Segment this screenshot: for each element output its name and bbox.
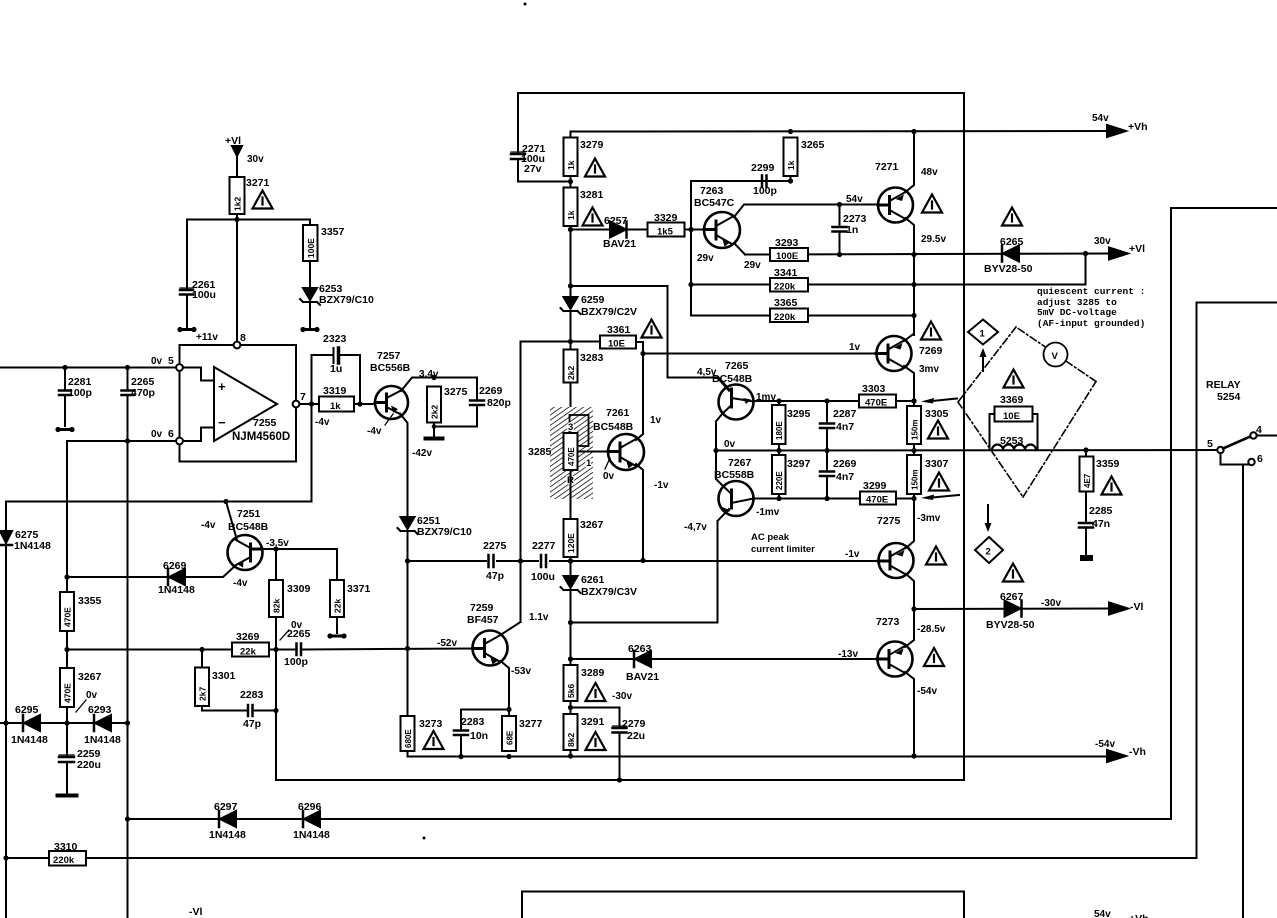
svg-text:3289: 3289: [581, 667, 605, 679]
junction 2283 line: [273, 708, 278, 713]
label AC peak current limiter: [751, 532, 815, 555]
svg-text:3269: 3269: [236, 631, 260, 643]
op-amp U7255 outer box: [180, 345, 297, 462]
svg-text:0v: 0v: [86, 690, 98, 701]
junction -Vl node: [911, 606, 916, 611]
resistor 3341 220k: [770, 278, 808, 292]
ground block under C2285: [1080, 555, 1093, 561]
svg-text:3365: 3365: [774, 297, 798, 309]
resistor 3329 1k5: [648, 223, 685, 237]
svg-text:−: −: [218, 415, 226, 430]
svg-text:BC548B: BC548B: [228, 521, 269, 533]
capacitor C2281 100p: [64, 368, 66, 390]
junction caps line x520: [518, 558, 523, 563]
junction C2269 bottom return: [432, 424, 437, 429]
junction R3277: [506, 754, 511, 759]
wire contact 4 out: [1257, 435, 1277, 437]
svg-text:-54v: -54v: [917, 686, 937, 697]
junction 3310 row: [3, 855, 8, 860]
wire Q7259 emitter: [501, 661, 510, 716]
svg-text:47p: 47p: [486, 570, 504, 582]
capacitor C2271 100u 27v: [511, 154, 525, 159]
wire 7265 base feed y286: [571, 286, 719, 378]
wire 30v feed y284: [691, 284, 1086, 286]
svg-text:4E7: 4E7: [1083, 473, 1092, 488]
svg-text:8k2: 8k2: [566, 733, 576, 747]
wire 3269 to C2266: [269, 649, 295, 651]
arrow -Vh: [1107, 750, 1126, 762]
wire 3310 row y858: [6, 857, 1197, 859]
junction caps line x643: [640, 558, 645, 563]
svg-text:10n: 10n: [470, 730, 488, 742]
svg-text:BC548B: BC548B: [593, 421, 634, 433]
wire 3269 line y649: [67, 649, 232, 651]
diode 6275 1N4148: [0, 531, 12, 543]
resistor 3307 150m: [907, 455, 921, 494]
resistor 3275 2k2: [427, 387, 441, 423]
junction output node: [309, 401, 314, 406]
resistor 3305 150m: [907, 406, 921, 444]
resistor 3303 470E: [859, 395, 896, 408]
wire left edge down: [5, 502, 7, 532]
junction 0v node: [713, 448, 718, 453]
svg-text:4: 4: [1256, 424, 1262, 436]
svg-text:3329: 3329: [654, 212, 678, 224]
resistor 3283 2k2: [564, 350, 578, 383]
wire diode row y723: [0, 722, 128, 724]
svg-text:7271: 7271: [875, 161, 899, 173]
svg-text:3297: 3297: [787, 458, 811, 470]
capacitor C2283 47p: [248, 705, 253, 716]
zener diode 6261 BZX79/C3V: [564, 576, 578, 588]
svg-text:180E: 180E: [775, 421, 784, 440]
svg-text:2285: 2285: [1089, 505, 1113, 517]
svg-text:BC547C: BC547C: [694, 197, 735, 209]
svg-text:1k2: 1k2: [233, 197, 243, 211]
junction C2269 bottom: [824, 496, 829, 501]
svg-text:-13v: -13v: [838, 649, 858, 660]
svg-text:quiescent current :: quiescent current :: [1037, 286, 1145, 297]
svg-text:820p: 820p: [487, 397, 511, 409]
wire C2279 branch: [571, 708, 620, 727]
warning triangle at 3279: [585, 159, 605, 177]
resistor 3355 470E: [60, 592, 74, 631]
big box right edge x964: [963, 93, 965, 780]
wire 3269 node to R3301: [201, 650, 203, 668]
warning triangle at 3359: [1102, 477, 1122, 495]
svg-text:1N4148: 1N4148: [209, 829, 246, 841]
svg-text:3369: 3369: [1000, 394, 1024, 406]
transistor Q7259 BF457: [473, 631, 508, 666]
svg-text:BAV21: BAV21: [626, 671, 659, 683]
junction caps line: [405, 558, 410, 563]
wire Q7251 collector right: [262, 548, 337, 550]
transistor Q7263 BC547C: [704, 212, 740, 248]
capacitor C2269 4n7: [826, 451, 828, 471]
node 0v label with slash: [291, 620, 303, 631]
svg-text:BF457: BF457: [467, 614, 499, 626]
wire x691 column: [690, 181, 692, 285]
relay contact 5 pivot: [1217, 447, 1223, 453]
svg-text:3265: 3265: [801, 139, 825, 151]
capacitor C2261 100u: [180, 290, 193, 295]
wire corner to R3279: [570, 132, 572, 138]
warning triangle at 7269: [921, 322, 941, 340]
capacitor C2259 220u: [59, 757, 74, 762]
svg-text:7261: 7261: [606, 407, 630, 419]
resistor 3371 22k: [330, 580, 344, 617]
wire 7273 base row y659: [571, 658, 878, 660]
speck: [524, 3, 527, 6]
transistor Q7271: [878, 188, 913, 223]
svg-text:6295: 6295: [15, 704, 39, 716]
svg-text:6296: 6296: [298, 801, 322, 813]
svg-text:4n7: 4n7: [836, 471, 854, 483]
resistor 3359 4E7: [1080, 457, 1094, 492]
svg-text:100u: 100u: [531, 571, 555, 583]
wire Q7259 collector: [501, 622, 521, 635]
resistor 3365 220k: [770, 309, 808, 323]
wire R3297 bottom stub: [778, 494, 780, 499]
pot wiper wire to Q7261 base: [578, 451, 609, 453]
svg-text:2283: 2283: [461, 716, 485, 728]
arrow +Vl: [1109, 248, 1128, 260]
resistor 3310 220k: [49, 851, 86, 866]
svg-text:6261: 6261: [581, 574, 605, 586]
wire x643 column: [642, 342, 644, 434]
wire Q7263 emitter to 29v row: [734, 243, 745, 255]
capacitor C2265 470p: [127, 368, 129, 390]
svg-text:7269: 7269: [919, 345, 943, 357]
wire C2299 top y181: [691, 180, 791, 182]
svg-text:3267: 3267: [78, 671, 102, 683]
relay 5254 label: [1206, 379, 1241, 403]
svg-text:68E: 68E: [506, 730, 515, 745]
wire R3307 to emitter row: [913, 494, 915, 499]
warning triangle at 3305: [928, 421, 948, 439]
junction y819: [125, 816, 130, 821]
note quiescent current text: [1037, 286, 1145, 329]
wire 3365 row y315: [691, 285, 914, 316]
capacitor C2287 4n7: [826, 401, 828, 422]
pin 8 terminal: [234, 342, 241, 349]
node 0v label with slash: [86, 690, 98, 701]
resistor 3319 1k: [319, 397, 354, 412]
wire D6261 down: [570, 591, 572, 665]
warning triangle at 7271: [922, 195, 942, 213]
svg-text:7257: 7257: [377, 350, 401, 362]
svg-text:-53v: -53v: [511, 666, 531, 677]
node -4v label: [315, 417, 330, 428]
svg-text:100p: 100p: [68, 387, 92, 399]
svg-text:0v: 0v: [151, 429, 163, 440]
resistor 3281 1k: [564, 188, 578, 227]
svg-text:3319: 3319: [323, 385, 347, 397]
wire pot bottom: [570, 470, 572, 519]
svg-text:BAV21: BAV21: [603, 238, 636, 250]
wire Q7267 emitter row y498: [754, 498, 915, 500]
svg-text:6263: 6263: [628, 643, 652, 655]
wire to R3371: [336, 549, 338, 580]
resistor 3361 10E: [600, 336, 636, 349]
wire x128 column: [127, 441, 129, 918]
ground under R3371: [331, 635, 343, 638]
svg-text:1v: 1v: [849, 342, 861, 353]
wire Q7267 collector to 0v node: [715, 451, 717, 480]
svg-text:470E: 470E: [866, 495, 888, 506]
ground under D6253: [304, 328, 316, 331]
svg-text:100p: 100p: [284, 656, 308, 668]
capacitor C2285 47n: [1079, 523, 1093, 528]
junction x570 caps line: [568, 558, 573, 563]
svg-text:3295: 3295: [787, 408, 811, 420]
svg-text:6: 6: [168, 428, 174, 440]
voltmeter V: [1044, 343, 1068, 367]
svg-text:3283: 3283: [580, 352, 604, 364]
junction R3309 top: [273, 546, 278, 551]
diode 6257 BAV21: [610, 222, 626, 238]
diode 6265 BYV28-50: [1003, 246, 1019, 262]
svg-text:0v: 0v: [603, 471, 615, 482]
wire C2271 to 3279/3281 junction: [518, 159, 571, 182]
wire contact 6 stub: [1221, 453, 1249, 465]
junction diode row: [64, 720, 69, 725]
resistor 3265 1k: [784, 138, 798, 177]
svg-text:3310: 3310: [54, 841, 78, 853]
diamond test point 1: [968, 320, 998, 345]
svg-text:1: 1: [586, 458, 592, 469]
diode 6263 BAV21: [635, 651, 651, 667]
capacitor C2277 100u: [539, 554, 549, 568]
svg-text:-54v: -54v: [1095, 739, 1115, 750]
junction Q7251 base: [223, 499, 228, 504]
wire between 3355 and 3367: [66, 631, 68, 668]
junction Q7271 collector: [911, 129, 916, 134]
junction C2287 bottom: [824, 448, 829, 453]
svg-text:1v: 1v: [650, 415, 662, 426]
wire 29v row y254: [745, 254, 1110, 255]
wire 3281 to bias row: [570, 226, 572, 297]
warning triangle at 3307: [929, 473, 949, 491]
wire Q7257 collector to top rail: [401, 378, 477, 392]
svg-text:BZX79/C2V: BZX79/C2V: [581, 306, 637, 318]
wire Q7273 collector: [905, 609, 914, 647]
wire left column x67: [66, 441, 68, 592]
transistor Q7257 BC556B: [375, 386, 408, 419]
capacitor C2273 1n: [839, 205, 841, 226]
svg-text:3281: 3281: [580, 189, 604, 201]
svg-text:3291: 3291: [581, 716, 605, 728]
svg-text:current limiter: current limiter: [751, 544, 815, 555]
wire Q7261 emitter: [636, 464, 643, 561]
junction: [234, 217, 239, 222]
junction: [199, 647, 204, 652]
svg-text:+: +: [218, 379, 226, 394]
svg-text:4,5v: 4,5v: [697, 367, 717, 378]
relay blade to contact 4: [1223, 437, 1251, 449]
svg-text:3341: 3341: [774, 267, 798, 279]
svg-text:+Vl: +Vl: [1129, 243, 1145, 255]
svg-text:2: 2: [986, 547, 991, 558]
svg-text:6269: 6269: [163, 560, 187, 572]
svg-text:22k: 22k: [333, 599, 343, 613]
transistor Q7267 BC558B: [719, 481, 754, 516]
junction y284: [911, 282, 916, 287]
svg-text:0v: 0v: [724, 439, 736, 450]
wire bias row y229: [571, 229, 705, 231]
wire Q7273 emitter: [905, 672, 914, 756]
capacitor C2266 100p: [297, 644, 302, 656]
node 0v label: [724, 439, 736, 450]
junction x914 y450: [911, 448, 916, 453]
warning triangle at 3291: [586, 732, 606, 750]
svg-text:BC548B: BC548B: [712, 373, 753, 385]
svg-text:(AF-input grounded): (AF-input grounded): [1037, 318, 1145, 329]
svg-text:1N4148: 1N4148: [293, 829, 330, 841]
resistor 3301 2k7: [195, 668, 209, 707]
svg-text:3mv: 3mv: [919, 364, 939, 375]
junction left column: [64, 574, 69, 579]
svg-text:3: 3: [568, 422, 573, 433]
svg-text:47n: 47n: [1092, 518, 1110, 530]
wire D6275 down left rail: [5, 545, 7, 918]
zener diode 6253 BZX79/C10: [303, 288, 317, 300]
svg-text:3303: 3303: [862, 383, 886, 395]
warning triangle at 7273: [924, 648, 944, 666]
wire R3309 leg: [275, 549, 277, 580]
svg-text:0v: 0v: [151, 356, 163, 367]
wire 0v output row y450: [716, 449, 1218, 452]
svg-text:100E: 100E: [306, 238, 316, 258]
svg-text:470E: 470E: [865, 398, 887, 409]
svg-text:1n: 1n: [846, 224, 858, 236]
svg-text:1N4148: 1N4148: [11, 734, 48, 746]
svg-text:3371: 3371: [347, 583, 371, 595]
wire Q7265 collector to 0v node: [715, 422, 717, 451]
svg-text:150m: 150m: [911, 420, 920, 440]
capacitor C2279 22u: [613, 728, 627, 733]
svg-text:220k: 220k: [53, 855, 75, 866]
junction y284: [688, 282, 693, 287]
sense arrow lower: [932, 495, 959, 498]
svg-text:220k: 220k: [774, 312, 796, 323]
svg-text:30v: 30v: [1094, 236, 1111, 247]
svg-text:100p: 100p: [753, 185, 777, 197]
resistor 3273 680E: [401, 716, 415, 751]
junction 2271 feed: [568, 179, 573, 184]
wire Q7251 base diag from feedback node: [226, 502, 237, 541]
arrow +Vh: [1107, 125, 1126, 137]
transistor Q7269: [877, 336, 912, 371]
resistor 3271 1k2: [230, 177, 245, 214]
node -52v label: [437, 638, 457, 649]
junction C2265 bottom: [125, 438, 130, 443]
warning triangle at 3271: [253, 191, 273, 209]
svg-text:6293: 6293: [88, 704, 112, 716]
svg-text:3267: 3267: [580, 519, 604, 531]
potentiometer 3285 hatched adjust area: [550, 407, 593, 499]
wire R3295 top stub: [778, 401, 780, 406]
warning triangle 6257: [583, 208, 603, 226]
svg-text:3309: 3309: [287, 583, 311, 595]
svg-text:NJM4560D: NJM4560D: [232, 431, 290, 443]
capacitor C2283 10n: [454, 731, 468, 736]
svg-text:-28.5v: -28.5v: [917, 624, 946, 635]
ground bar under C2259: [58, 794, 77, 798]
svg-text:BC556B: BC556B: [370, 362, 411, 374]
svg-text:3277: 3277: [519, 718, 543, 730]
svg-text:-4v: -4v: [315, 417, 330, 428]
diode 6297 1N4148: [220, 811, 236, 827]
svg-text:1N4148: 1N4148: [158, 584, 195, 596]
svg-text:1N4148: 1N4148: [84, 734, 121, 746]
svg-text:7251: 7251: [237, 508, 261, 520]
junction R3291: [568, 753, 573, 758]
junction 3269 line left: [64, 647, 69, 652]
svg-text:-Vl: -Vl: [1130, 601, 1144, 613]
wire 7269 base y353: [643, 353, 876, 355]
svg-text:5254: 5254: [1217, 391, 1241, 403]
wire big box top y93: [518, 92, 964, 94]
resistor 3309 82k: [269, 580, 283, 617]
junction C2283b top: [506, 707, 511, 712]
junction C2265: [125, 365, 130, 370]
transistor Q7261 BC548B: [608, 434, 644, 470]
supply +Vl top arrow: [232, 146, 242, 156]
svg-text:220E: 220E: [775, 471, 784, 490]
junction C2273 top: [837, 202, 842, 207]
svg-text:7263: 7263: [700, 185, 724, 197]
junction y286: [568, 283, 573, 288]
wire Q7251 emitter to D6269: [186, 565, 236, 577]
junction 10E row: [568, 339, 573, 344]
svg-text:7259: 7259: [470, 602, 494, 614]
wire -54v rail y756: [408, 751, 1109, 757]
svg-text:-Vh: -Vh: [1129, 746, 1146, 758]
svg-text:1N4148: 1N4148: [14, 540, 51, 552]
resistor 3357 100E: [303, 225, 318, 261]
svg-text:-52v: -52v: [437, 638, 457, 649]
wire Q7261 collector: [636, 434, 643, 440]
svg-text:1.1v: 1.1v: [529, 612, 549, 623]
wire 3369 parallel stubs: [990, 414, 1038, 450]
pin 7 output terminal: [293, 401, 300, 408]
svg-text:BZX79/C10: BZX79/C10: [417, 526, 472, 538]
svg-text:3361: 3361: [607, 324, 631, 336]
warning triangle above 6265: [1002, 208, 1022, 226]
svg-text:3307: 3307: [925, 458, 949, 470]
wire 3361 to x643: [636, 341, 643, 343]
svg-text:5253: 5253: [1000, 435, 1024, 447]
wire C2269 to R3275 bottom: [434, 405, 477, 427]
diode 6295 1N4148: [24, 715, 40, 731]
sense arrow upper: [932, 399, 957, 402]
diode 6267 BYV28-50: [1005, 601, 1021, 617]
svg-text:5k6: 5k6: [566, 684, 576, 698]
svg-text:-Vl: -Vl: [189, 906, 203, 918]
diode 6293 1N4148: [95, 715, 111, 731]
resistor 3293 100E: [770, 248, 808, 261]
svg-text:1u: 1u: [330, 363, 342, 375]
svg-text:100E: 100E: [776, 251, 798, 262]
svg-text:470E: 470E: [567, 447, 576, 466]
svg-text:2323: 2323: [323, 333, 347, 345]
zener diode 6259 BZX79/C2V: [564, 297, 578, 309]
svg-text:-4v: -4v: [233, 578, 248, 589]
svg-text:+Vh: +Vh: [1129, 913, 1149, 918]
svg-text:120E: 120E: [566, 533, 576, 553]
svg-text:2k2: 2k2: [566, 366, 576, 380]
